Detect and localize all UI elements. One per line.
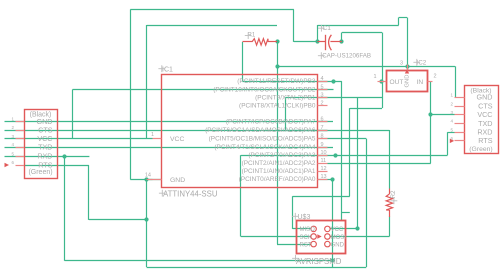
wire: left outer drop to GND pin row xyxy=(130,10,132,180)
wire: drop to PA6 row xyxy=(285,98,287,130)
svg-text:(PCINT1/AIN0/ADC1)PA1: (PCINT1/AIN0/ADC1)PA1 xyxy=(242,168,316,175)
svg-text:1: 1 xyxy=(450,93,453,98)
pin 13 PA0 xyxy=(239,174,328,183)
svg-text:U$3: U$3 xyxy=(298,214,311,221)
wire: C1 left riser xyxy=(317,25,319,42)
junction xyxy=(339,39,343,43)
wire: TXD row across IC (PA4) xyxy=(5,147,334,149)
wire: drop to ISP SCK row xyxy=(240,155,242,236)
wire into GND pin xyxy=(147,179,153,181)
wire: riser from PB2 row to VCC row xyxy=(72,90,74,139)
wire: staircase lower jog xyxy=(350,108,382,110)
wire: RXD row from left connector xyxy=(5,156,90,158)
wire: into IC GND pin xyxy=(130,179,161,181)
svg-text:GND: GND xyxy=(331,243,345,249)
svg-text:11: 11 xyxy=(321,158,327,164)
wire over PA5 stub xyxy=(318,138,328,140)
pin 14 GND stub xyxy=(147,179,162,181)
wire: RXD bottom run xyxy=(65,260,333,262)
wire: long riser R1-right down to ISP RST xyxy=(277,42,279,244)
svg-text:4: 4 xyxy=(450,119,453,124)
svg-text:(PCINT4/T1/SCL/USCK/ADC4)PA4: (PCINT4/T1/SCL/USCK/ADC4)PA4 xyxy=(214,144,316,151)
wire: RESET row xyxy=(243,81,342,83)
wire: riser PA5 to bottom rail xyxy=(366,139,368,267)
wire: RTS row xyxy=(24,165,89,167)
svg-text:R2: R2 xyxy=(390,190,397,199)
junction xyxy=(355,226,359,230)
svg-text:ATTINY44-SSU: ATTINY44-SSU xyxy=(163,190,218,199)
svg-text:GND: GND xyxy=(477,93,493,102)
svg-text:IC2: IC2 xyxy=(417,60,427,67)
wire over IC2 pin3 stub xyxy=(407,65,409,71)
svg-text:RXD: RXD xyxy=(477,128,492,137)
wire: RTS run to GND riser xyxy=(89,219,147,221)
svg-text:5: 5 xyxy=(321,84,324,90)
wire: VCC row from left connector to IC pin1 xyxy=(5,138,153,140)
svg-text:CTS: CTS xyxy=(478,101,493,110)
svg-text:4: 4 xyxy=(11,142,14,147)
wire: drop to MISO row xyxy=(292,196,294,229)
wire: resonator OUT staircase to PA6 xyxy=(285,97,382,99)
svg-text:MISO: MISO xyxy=(300,227,316,233)
svg-text:(PCINT3/T0/ADC3)PA3: (PCINT3/T0/ADC3)PA3 xyxy=(248,152,316,159)
junction xyxy=(405,64,409,68)
svg-text:(PCINT5/OC1B/MISO/DO/ADC5)PA5: (PCINT5/OC1B/MISO/DO/ADC5)PA5 xyxy=(209,136,316,143)
pin 3 PB1 xyxy=(255,92,327,101)
wire: ISP VCC row to riser xyxy=(330,228,358,230)
pin 12 PA1 xyxy=(242,166,328,175)
svg-text:1: 1 xyxy=(151,132,154,138)
connector J2 FTDI right xyxy=(450,86,499,154)
svg-text:3: 3 xyxy=(400,61,403,67)
wire: R2 to ISP MOSI row xyxy=(330,236,389,238)
svg-text:TXD: TXD xyxy=(478,119,492,128)
junction xyxy=(144,177,148,181)
wire: staircase run left xyxy=(293,196,350,198)
header U$3 AVRISPSMD xyxy=(296,214,346,266)
junction xyxy=(275,39,279,43)
wire: R2 bottom down xyxy=(389,217,391,237)
connector J1 FTDI left xyxy=(5,110,58,179)
wire: riser to right RXD xyxy=(447,132,449,155)
IC2 pin 1 stub xyxy=(378,81,387,83)
wire: to C1 left xyxy=(294,41,318,43)
wire: PA5 stub to riser xyxy=(328,138,367,140)
wire: PA2 row run xyxy=(328,163,431,165)
label origin crosses xyxy=(245,32,252,39)
wire over PB3 stub xyxy=(318,81,328,83)
resonator IC2 xyxy=(373,60,436,92)
pin 1 VCC stub xyxy=(153,138,162,140)
svg-text:VCC: VCC xyxy=(477,110,492,119)
svg-text:GND: GND xyxy=(405,75,411,88)
wire: bottom GND rail xyxy=(147,267,367,269)
pin 9 PA4 xyxy=(214,142,327,151)
svg-text:AVRISPSMD: AVRISPSMD xyxy=(296,257,342,266)
svg-text:2: 2 xyxy=(434,74,437,80)
svg-text:10: 10 xyxy=(321,150,327,156)
wire over PB1 stub xyxy=(318,97,328,99)
wire: into right VCC stub xyxy=(431,114,455,116)
wire: jog to ISP box top riser xyxy=(342,212,350,214)
pin 5 PB2 xyxy=(213,84,327,93)
wire: RESET riser down to ISP box top xyxy=(341,81,343,221)
svg-text:(PCINT6/OC1A/SDA/MOSI/ADC6)PA6: (PCINT6/OC1A/SDA/MOSI/ADC6)PA6 xyxy=(205,127,316,134)
svg-text:2: 2 xyxy=(321,101,324,107)
junction xyxy=(315,39,319,43)
wire: into ISP RST xyxy=(277,244,311,246)
svg-text:14: 14 xyxy=(145,172,151,178)
pin 10 PA3 xyxy=(248,150,327,159)
svg-text:GND: GND xyxy=(170,177,185,184)
resistor R1 xyxy=(243,33,278,46)
svg-text:MOSI: MOSI xyxy=(331,235,347,241)
wire: R1 left drop to RESET row xyxy=(242,42,244,81)
svg-text:7: 7 xyxy=(321,125,324,131)
svg-text:5: 5 xyxy=(11,151,14,156)
wire over PA3 stub xyxy=(318,155,328,157)
wire: C1 right drop through IC2 pin1 xyxy=(382,33,384,109)
svg-text:SCK: SCK xyxy=(300,235,312,241)
svg-text:6: 6 xyxy=(11,160,14,165)
wire: jog top xyxy=(399,17,407,19)
junction xyxy=(428,112,432,116)
wire: RTS drop xyxy=(88,165,90,220)
svg-text:2: 2 xyxy=(11,125,14,130)
wire: GND row from left connector across IC (PA7) xyxy=(5,121,334,123)
junction xyxy=(331,79,335,83)
svg-text:3: 3 xyxy=(321,92,324,98)
svg-text:(PCINT10/INT0/OC0A/CKOUT)PB2: (PCINT10/INT0/OC0A/CKOUT)PB2 xyxy=(213,86,316,93)
pin 11 PA2 xyxy=(242,158,328,167)
wire: PA3 row run to right connector RXD xyxy=(241,155,448,157)
pin 2 PB0 xyxy=(239,101,327,110)
wire: PA0 stub out xyxy=(328,179,333,181)
svg-text:(Green): (Green) xyxy=(469,146,492,153)
svg-text:(Green): (Green) xyxy=(28,169,52,176)
resistor R2 xyxy=(386,189,397,218)
op IC1 ATTINY44 xyxy=(145,67,318,199)
wire: GND drop to bottom rail xyxy=(146,180,148,268)
svg-text:RXD: RXD xyxy=(37,152,52,161)
wire over PA7 stub xyxy=(318,121,328,123)
wire: IC2 pin2 riser down xyxy=(430,81,432,163)
pin 6 PA7 xyxy=(226,116,328,125)
wire: inner top run xyxy=(147,25,277,27)
svg-text:(PCINT0/AREF/ADC0)PA0: (PCINT0/AREF/ADC0)PA0 xyxy=(239,176,316,183)
junction xyxy=(333,153,337,157)
wire: RXD drop xyxy=(64,156,66,261)
wire: PA0 drop to bottom rail through ISP GND xyxy=(332,179,334,267)
junction xyxy=(62,154,66,158)
svg-text:(PCINT9/XTAL2)PB1: (PCINT9/XTAL2)PB1 xyxy=(255,95,316,102)
wire: outer top VCC loop xyxy=(130,9,294,11)
svg-text:4: 4 xyxy=(321,76,324,82)
svg-text:RTS: RTS xyxy=(38,160,52,169)
wire: down to IC2 pin3 xyxy=(407,18,409,71)
svg-text:IC1: IC1 xyxy=(162,67,173,74)
svg-text:1: 1 xyxy=(373,74,376,80)
pin 7 PA6 xyxy=(205,125,327,134)
junction xyxy=(330,177,334,181)
junction xyxy=(275,64,279,68)
IC2 pin 3 stub xyxy=(407,65,409,71)
junction xyxy=(144,217,148,221)
wire over PA0 stub xyxy=(318,179,328,181)
svg-text:VCC: VCC xyxy=(170,136,184,143)
wire: CTS row across IC (PA6) to R2 riser xyxy=(5,130,390,132)
wire: down to R2 top xyxy=(389,130,391,189)
wire: drop to R1 right row xyxy=(293,10,295,42)
wire: into right RXD stub xyxy=(448,132,455,134)
svg-text:VCC: VCC xyxy=(331,227,344,233)
junction xyxy=(379,79,383,83)
svg-text:9: 9 xyxy=(321,142,324,148)
wire: C1 right riser xyxy=(341,33,343,42)
wire: into ISP MISO xyxy=(293,228,311,230)
svg-text:TXD: TXD xyxy=(38,142,52,151)
wire: top run to resonator xyxy=(318,25,399,27)
svg-text:13: 13 xyxy=(321,174,327,180)
svg-text:6: 6 xyxy=(321,116,324,122)
wire: into ISP SCK xyxy=(241,236,311,238)
svg-text:8: 8 xyxy=(321,134,324,140)
pin 8 PA5 xyxy=(209,134,328,143)
wire: PB1 riser down to ISP VCC row xyxy=(357,98,359,229)
svg-text:OUT: OUT xyxy=(390,79,404,86)
IC2 pin 2 stub xyxy=(428,81,433,83)
wire: PA6 row xyxy=(285,130,327,132)
svg-text:RST: RST xyxy=(300,243,312,249)
svg-text:CTS: CTS xyxy=(38,125,53,134)
wire: drop to right conn GND xyxy=(455,66,457,97)
svg-text:CAP-US1206FAB: CAP-US1206FAB xyxy=(322,53,371,60)
svg-text:(PCINT11/RESET/DW)PB3: (PCINT11/RESET/DW)PB3 xyxy=(237,78,316,85)
capacitor C1 xyxy=(318,25,372,60)
wire over PA6 stub xyxy=(318,130,328,132)
svg-text:(PCINT7/ICP/OC0B/ADC7)PA7: (PCINT7/ICP/OC0B/ADC7)PA7 xyxy=(226,118,316,125)
wire: jog up xyxy=(398,18,400,26)
wire: GND rail to right connector xyxy=(277,66,455,68)
svg-text:12: 12 xyxy=(321,166,327,172)
wire: drop to IC VCC pin xyxy=(146,25,148,139)
svg-text:2: 2 xyxy=(450,101,453,106)
wire: top jog to IC2 pin1 column xyxy=(342,32,382,34)
wire: PB2 long row xyxy=(73,89,334,91)
svg-text:(PCINT2/AIN1/ADC2)PA2: (PCINT2/AIN1/ADC2)PA2 xyxy=(242,160,316,167)
junction xyxy=(330,258,334,262)
wire over PA4 stub xyxy=(318,147,328,149)
svg-text:(PCINT8/XTAL1/CLKI)PB0: (PCINT8/XTAL1/CLKI)PB0 xyxy=(239,103,316,110)
wire over PB2 stub xyxy=(318,89,328,91)
svg-text:5: 5 xyxy=(450,127,453,132)
pin 4 PB3 xyxy=(237,76,327,85)
svg-text:IN: IN xyxy=(417,79,424,86)
wire: staircase drop xyxy=(349,108,351,196)
svg-text:RTS: RTS xyxy=(478,136,492,145)
